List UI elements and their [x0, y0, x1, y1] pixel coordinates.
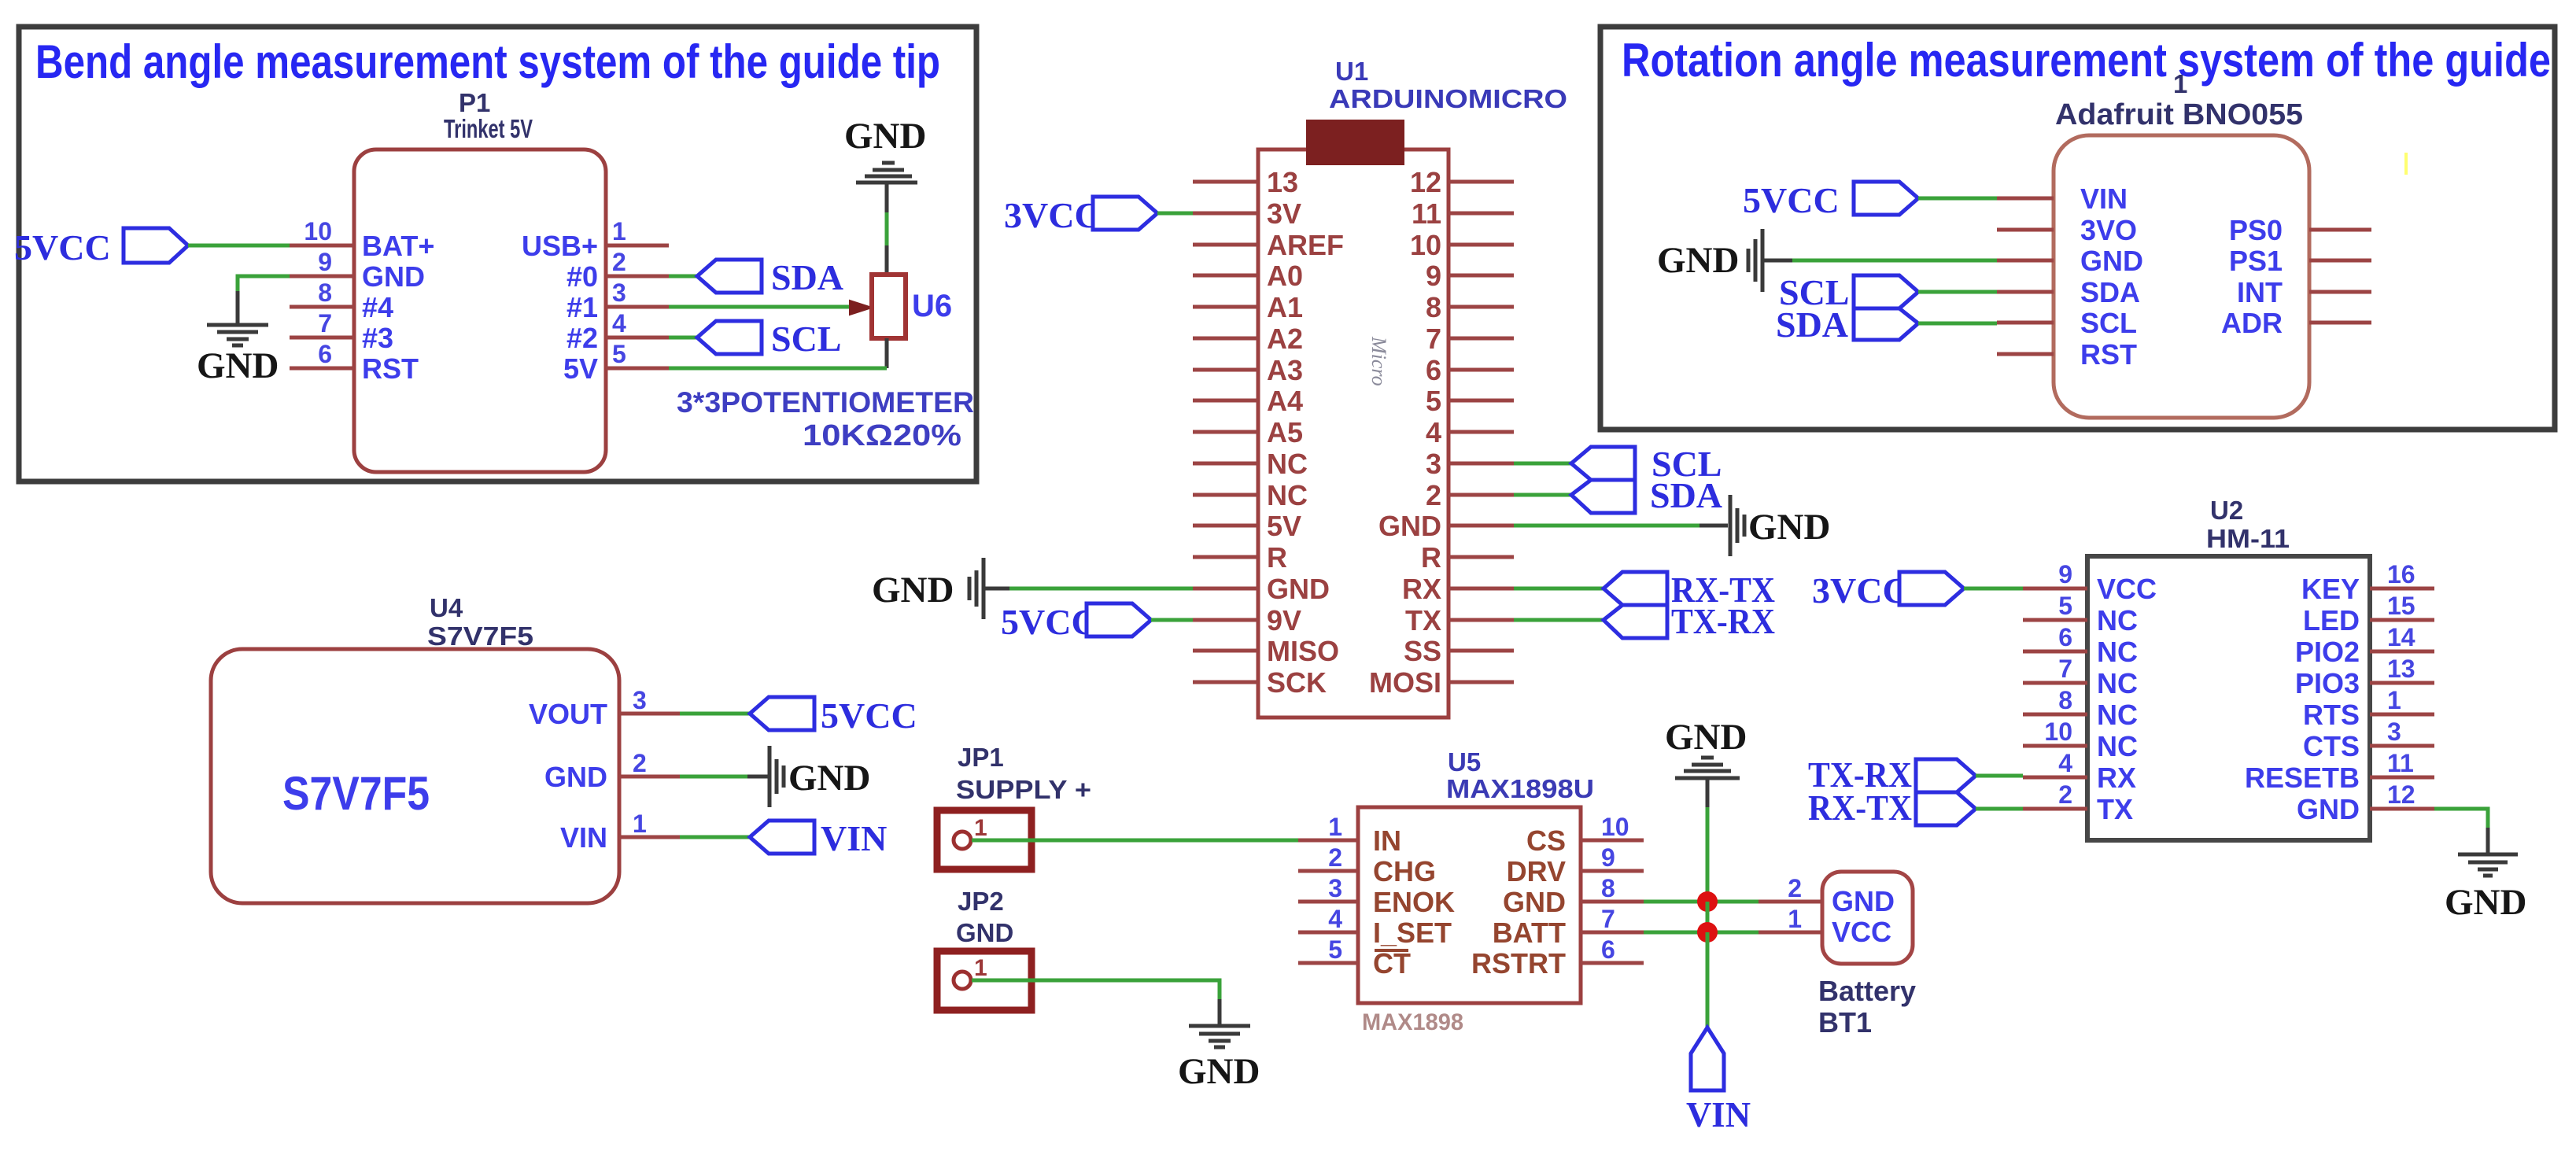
svg-text:14: 14 [2387, 623, 2415, 651]
svg-text:GND: GND [2445, 882, 2526, 923]
wire U4 GND to ground [680, 775, 749, 779]
svg-text:A3: A3 [1267, 354, 1303, 386]
pin 9 GND stub [290, 248, 354, 276]
svg-text:GND: GND [2080, 245, 2143, 277]
regulator U4 S7V7F5 [211, 593, 619, 903]
svg-text:NC: NC [2097, 636, 2138, 668]
wire P1 pin 2 to SDA flag [669, 275, 697, 279]
svg-text:CTS: CTS [2303, 730, 2360, 762]
wire P1 pin 5 to U6 bottom [669, 367, 887, 371]
svg-text:9: 9 [1426, 260, 1441, 292]
svg-text:16: 16 [2387, 560, 2415, 588]
svg-text:KEY: KEY [2301, 573, 2360, 605]
svg-text:BATT: BATT [1493, 917, 1566, 949]
pin 7 #3 stub [290, 309, 354, 338]
net flag SCL (BNO055) [1779, 272, 1918, 312]
svg-text:3VCC: 3VCC [1004, 195, 1101, 235]
wire ground to U6 top [885, 212, 889, 247]
svg-text:2: 2 [633, 749, 647, 777]
svg-text:2: 2 [1328, 843, 1342, 872]
pin 2 #0 stub [606, 248, 669, 276]
svg-text:PS0: PS0 [2229, 214, 2283, 246]
svg-text:MAX1898: MAX1898 [1362, 1009, 1463, 1035]
battery pin 2 stub [1759, 874, 1822, 902]
svg-text:PS1: PS1 [2229, 245, 2283, 277]
svg-text:MOSI: MOSI [1369, 666, 1441, 699]
wire 5VCC to U1 9V [1151, 618, 1193, 622]
supply flag 3VCC (U1 3V pin) [1004, 195, 1157, 235]
wire P1 pin 4 to SCL flag [669, 336, 697, 340]
ground GND (above battery net) [1665, 717, 1747, 809]
svg-text:SDA: SDA [2080, 276, 2140, 308]
svg-text:12: 12 [2387, 780, 2415, 809]
svg-text:11: 11 [1412, 197, 1441, 230]
svg-text:SCL: SCL [771, 319, 841, 359]
wire ground to BNO055 GND [1792, 259, 1997, 263]
svg-text:VOUT: VOUT [529, 698, 607, 730]
svg-text:9: 9 [2058, 560, 2072, 588]
connector JP1 SUPPLY + [937, 743, 1091, 869]
svg-text:U1: U1 [1335, 57, 1368, 86]
ground GND (right of U4) [747, 746, 870, 807]
U2 pin 4 stub [2023, 749, 2087, 777]
wire P1 pin 3 to potentiometer wiper [669, 305, 851, 309]
U5 pin 5 stub [1298, 935, 1358, 964]
wire U5 GND to battery GND [1644, 900, 1759, 904]
svg-text:A4: A4 [1267, 385, 1303, 417]
U2 pin 5 stub [2023, 592, 2087, 620]
U5 pin 3 stub [1298, 874, 1358, 902]
wire U1 TX to TX-RX flag [1514, 618, 1604, 622]
stray yellow mark [2404, 153, 2408, 175]
svg-text:MAX1898U: MAX1898U [1446, 774, 1594, 803]
svg-text:6: 6 [1601, 935, 1615, 964]
svg-text:5VCC: 5VCC [821, 695, 917, 736]
pin 6 RST stub [290, 340, 354, 368]
U4 pin 1 VIN stub [619, 810, 680, 838]
svg-text:7: 7 [1601, 905, 1615, 933]
U2 pin 2 stub [2023, 780, 2087, 809]
svg-text:GND: GND [1503, 886, 1566, 918]
wire 3VCC to U1 3V [1157, 212, 1193, 216]
svg-text:VIN: VIN [821, 818, 887, 858]
svg-text:#2: #2 [566, 322, 598, 354]
wire JP2 to ground [972, 980, 1220, 1001]
svg-text:1: 1 [2173, 69, 2187, 98]
svg-text:5: 5 [1328, 935, 1342, 964]
svg-text:RST: RST [2080, 338, 2137, 371]
BNO055 left pin stubs [1997, 198, 2054, 354]
ground GND (above U6) [844, 116, 926, 214]
net flag RX-TX (U1) [1604, 570, 1775, 610]
svg-text:4: 4 [2058, 749, 2072, 777]
U5 pin 9 stub [1581, 843, 1644, 872]
svg-text:RX-TX: RX-TX [1808, 788, 1912, 828]
net flag TX-RX (U1) [1604, 601, 1775, 641]
pin 5 5V stub [606, 340, 669, 368]
svg-text:U6: U6 [912, 289, 952, 323]
svg-text:13: 13 [1267, 166, 1298, 198]
U2 pin 14 stub [2370, 623, 2434, 651]
svg-text:Adafruit BNO055: Adafruit BNO055 [2055, 98, 2303, 131]
net flag RX-TX (U2) [1808, 788, 1976, 828]
wire U4 VOUT to 5VCC flag [680, 712, 750, 716]
connector JP2 GND [937, 887, 1032, 1010]
wire BATT junction down to VIN flag [1706, 932, 1710, 1027]
svg-text:9: 9 [1601, 843, 1615, 872]
svg-text:2: 2 [612, 248, 626, 276]
U1 left pin stubs [1193, 182, 1258, 682]
svg-text:A1: A1 [1267, 291, 1303, 323]
wire ground down to GND junction [1706, 807, 1710, 902]
svg-text:1: 1 [633, 810, 647, 838]
svg-text:TX: TX [2097, 793, 2133, 825]
U5 pin 7 stub [1581, 905, 1644, 933]
svg-text:USB+: USB+ [522, 230, 598, 262]
svg-text:1: 1 [612, 217, 626, 245]
svg-text:AREF: AREF [1267, 229, 1344, 261]
wire U1 RX to RX-TX flag [1514, 587, 1604, 591]
bluetooth module U2 HM-11 [2087, 496, 2370, 840]
svg-text:4: 4 [612, 309, 626, 338]
svg-text:3VCC: 3VCC [1812, 570, 1909, 611]
svg-text:U2: U2 [2210, 496, 2243, 525]
svg-text:1: 1 [1788, 905, 1802, 933]
wire U1 GND pin to ground [1514, 524, 1701, 528]
svg-text:MISO: MISO [1267, 635, 1339, 667]
wire junction down to BATT junction [1706, 902, 1710, 932]
U4 pin 3 VOUT stub [619, 686, 680, 714]
svg-text:Trinket 5V: Trinket 5V [444, 114, 533, 143]
svg-text:SUPPLY +: SUPPLY + [956, 775, 1091, 804]
svg-text:#0: #0 [566, 260, 598, 293]
supply flag 5VCC (U1 9V pin) [1001, 602, 1151, 642]
ground GND (below JP2 wire) [1178, 999, 1260, 1092]
pin 3 #1 stub [606, 279, 669, 307]
U2 pin 8 stub [2023, 686, 2087, 714]
U2 pin 1 stub [2370, 686, 2434, 714]
ground GND (below U2) [2445, 828, 2526, 923]
svg-text:SCK: SCK [1267, 666, 1327, 699]
svg-text:VCC: VCC [1832, 916, 1891, 948]
wire U4 VIN to VIN flag [680, 836, 750, 839]
wire TX-RX flag to U2 RX [1976, 774, 2023, 778]
wire P1 pin 9 to ground [238, 276, 290, 293]
net flag VIN (U4) [750, 818, 887, 858]
U5 pin 8 stub [1581, 874, 1644, 902]
svg-text:4: 4 [1426, 416, 1441, 448]
wire 3VCC to U2 VCC [1964, 587, 2023, 591]
svg-text:GND: GND [1832, 885, 1895, 917]
U5 pin 10 stub [1581, 813, 1644, 841]
svg-text:LED: LED [2303, 604, 2360, 636]
svg-text:CT: CT [1373, 947, 1411, 979]
svg-text:3: 3 [1328, 874, 1342, 902]
svg-text:A0: A0 [1267, 260, 1303, 292]
supply flag 5VCC (P1) [14, 227, 188, 267]
U2 pin 9 stub [2023, 560, 2087, 588]
ground GND (below P1 pin 9) [197, 291, 279, 386]
connector P1 Trinket 5V [354, 88, 606, 472]
svg-text:NC: NC [2097, 667, 2138, 699]
pin 10 BAT+ stub [290, 217, 354, 245]
svg-text:7: 7 [318, 309, 332, 338]
wire U5 BATT to battery VCC [1644, 931, 1759, 935]
svg-text:5VCC: 5VCC [1743, 180, 1840, 220]
svg-text:10: 10 [2044, 718, 2072, 746]
wire RX-TX flag to U2 TX [1976, 807, 2023, 811]
svg-text:3: 3 [612, 279, 626, 307]
svg-text:NC: NC [1267, 479, 1308, 511]
svg-text:GND: GND [1748, 507, 1830, 548]
svg-text:SDA: SDA [1776, 304, 1848, 345]
battery pin 1 stub [1759, 905, 1822, 933]
supply flag 5VCC (U4) [750, 695, 917, 736]
U6 bottom pin stub [885, 338, 889, 368]
svg-text:6: 6 [1426, 354, 1441, 386]
svg-text:5: 5 [2058, 592, 2072, 620]
svg-text:4: 4 [1328, 905, 1342, 933]
wire ground to U1 GND [1009, 587, 1193, 591]
svg-text:IN: IN [1373, 825, 1401, 857]
svg-text:GND: GND [2297, 793, 2360, 825]
svg-text:#4: #4 [362, 291, 393, 323]
ground GND (left of U1 GND pin) [872, 558, 1011, 619]
wire U1 pin 2 to SDA flag [1514, 493, 1571, 497]
svg-text:5: 5 [1426, 385, 1441, 417]
svg-text:ADR: ADR [2221, 307, 2283, 339]
svg-text:GND: GND [872, 570, 954, 611]
svg-text:5V: 5V [563, 352, 598, 385]
net flag TX-RX (U2) [1808, 754, 1976, 795]
net flag SDA (BNO055) [1776, 304, 1918, 345]
svg-text:ARDUINOMICRO: ARDUINOMICRO [1329, 84, 1567, 113]
svg-text:R: R [1267, 541, 1287, 574]
svg-text:I_SET: I_SET [1373, 917, 1452, 949]
net flag SCL [697, 319, 841, 359]
svg-text:BT1: BT1 [1818, 1006, 1872, 1038]
U4 pin 2 GND stub [619, 749, 680, 777]
U2 pin 13 stub [2370, 655, 2434, 683]
net flag SDA (U1) [1571, 475, 1722, 515]
svg-text:U4: U4 [430, 593, 463, 622]
svg-text:#3: #3 [362, 322, 393, 354]
svg-text:2: 2 [1788, 874, 1802, 902]
svg-text:Micro: Micro [1367, 336, 1390, 386]
svg-text:GND: GND [788, 758, 870, 799]
svg-text:1: 1 [974, 815, 987, 841]
svg-text:PIO3: PIO3 [2295, 667, 2360, 699]
svg-text:PIO2: PIO2 [2295, 636, 2360, 668]
svg-text:15: 15 [2387, 592, 2415, 620]
svg-text:1: 1 [1328, 813, 1342, 841]
svg-text:6: 6 [2058, 623, 2072, 651]
svg-text:1: 1 [974, 955, 987, 981]
svg-text:NC: NC [2097, 730, 2138, 762]
svg-text:3V: 3V [1267, 197, 1301, 230]
svg-text:10: 10 [1601, 813, 1629, 841]
svg-text:RX: RX [1402, 573, 1441, 605]
svg-text:GND: GND [1178, 1051, 1260, 1092]
svg-text:10: 10 [1410, 229, 1441, 261]
svg-text:A5: A5 [1267, 416, 1303, 448]
svg-text:GND: GND [1665, 717, 1747, 758]
wire U2 GND to ground [2434, 809, 2488, 829]
svg-text:VIN: VIN [2080, 183, 2128, 215]
svg-text:A2: A2 [1267, 323, 1303, 355]
pin 8 #4 stub [290, 279, 354, 307]
U5 pin 6 stub [1581, 935, 1644, 964]
U5 pin 4 stub [1298, 905, 1358, 933]
U2 pin 6 stub [2023, 623, 2087, 651]
svg-text:S7V7F5: S7V7F5 [282, 767, 430, 820]
net flag SCL (U1) [1571, 444, 1722, 484]
svg-text:5V: 5V [1267, 510, 1301, 542]
svg-text:3: 3 [1426, 448, 1441, 480]
IC U1 ARDUINOMICRO [1258, 57, 1567, 718]
potentiometer U6 [872, 275, 952, 338]
wire JP1 to U5 IN [972, 839, 1298, 843]
svg-text:10: 10 [304, 217, 332, 245]
svg-text:8: 8 [1601, 874, 1615, 902]
svg-text:3*3POTENTIOMETER: 3*3POTENTIOMETER [677, 386, 974, 419]
svg-text:SDA: SDA [771, 257, 843, 297]
svg-text:CS: CS [1526, 825, 1566, 857]
svg-text:3: 3 [633, 686, 647, 714]
svg-text:GND: GND [844, 116, 926, 157]
svg-text:9: 9 [318, 248, 332, 276]
net flag VIN (battery) [1686, 1027, 1751, 1134]
svg-text:3VO: 3VO [2080, 214, 2137, 246]
svg-text:DRV: DRV [1507, 855, 1566, 887]
svg-text:GND: GND [1267, 573, 1330, 605]
svg-text:TX: TX [1405, 604, 1441, 636]
svg-text:GND: GND [1378, 510, 1441, 542]
svg-text:INT: INT [2237, 276, 2283, 308]
svg-text:GND: GND [956, 918, 1013, 947]
svg-text:12: 12 [1410, 166, 1441, 198]
U5 pin 1 stub [1298, 813, 1358, 841]
svg-text:NC: NC [2097, 699, 2138, 731]
svg-text:Battery: Battery [1818, 975, 1916, 1007]
wiper arrow into U6 [850, 301, 872, 315]
wire 5VCC to BNO055 VIN [1918, 197, 1997, 201]
svg-text:SDA: SDA [1650, 475, 1722, 515]
ground GND (right of U1) [1699, 495, 1830, 556]
BNO055 right pin stubs [2309, 230, 2371, 323]
svg-text:7: 7 [2058, 655, 2072, 683]
svg-text:GND: GND [362, 260, 425, 293]
svg-text:2: 2 [1426, 479, 1441, 511]
svg-text:6: 6 [318, 340, 332, 368]
svg-text:Bend angle measurement system: Bend angle measurement system of the gui… [35, 35, 940, 88]
svg-text:HM-11: HM-11 [2206, 524, 2290, 553]
svg-text:U5: U5 [1448, 747, 1481, 777]
svg-text:3: 3 [2387, 718, 2401, 746]
svg-text:11: 11 [2387, 749, 2414, 777]
pin 1 USB+ stub [606, 217, 669, 245]
svg-text:9V: 9V [1267, 604, 1301, 636]
svg-text:RSTRT: RSTRT [1471, 947, 1566, 979]
U1 usb connector block [1306, 120, 1404, 165]
svg-text:13: 13 [2387, 655, 2415, 683]
svg-text:NC: NC [1267, 448, 1308, 480]
U2 pin 16 stub [2370, 560, 2434, 588]
svg-text:RESETB: RESETB [2245, 762, 2360, 794]
wire U1 pin 3 to SCL flag [1514, 462, 1571, 466]
svg-text:10KΩ20%: 10KΩ20% [803, 419, 961, 452]
supply flag 3VCC (U2) [1812, 570, 1964, 611]
svg-text:Rotation angle measurement sys: Rotation angle measurement system of the… [1622, 34, 2551, 87]
svg-text:NC: NC [2097, 604, 2138, 636]
svg-text:SCL: SCL [2080, 307, 2137, 339]
svg-text:JP1: JP1 [958, 743, 1004, 772]
wire SCL flag to BNO055 SDA [1918, 290, 1997, 294]
svg-text:RST: RST [362, 352, 419, 385]
svg-text:7: 7 [1426, 323, 1441, 355]
U1 right pin stubs [1449, 182, 1514, 682]
svg-text:8: 8 [1426, 291, 1441, 323]
svg-text:TX-RX: TX-RX [1671, 601, 1775, 641]
pin 4 #2 stub [606, 309, 669, 338]
svg-text:P1: P1 [459, 88, 490, 117]
svg-text:8: 8 [318, 279, 332, 307]
svg-text:RX: RX [2097, 762, 2136, 794]
svg-text:SS: SS [1404, 635, 1441, 667]
U2 pin 12 stub [2370, 780, 2434, 809]
ground GND (left of BNO055) [1657, 229, 1794, 292]
supply flag 5VCC (BNO055) [1743, 180, 1918, 220]
U2 pin 11 stub [2370, 749, 2434, 777]
svg-text:R: R [1421, 541, 1441, 574]
svg-text:8: 8 [2058, 686, 2072, 714]
svg-text:S7V7F5: S7V7F5 [427, 622, 533, 651]
svg-text:1: 1 [2387, 686, 2401, 714]
junction BATT net [1697, 922, 1718, 943]
wire SDA flag to BNO055 SCL [1918, 322, 1997, 326]
svg-text:2: 2 [2058, 780, 2072, 809]
U2 pin 15 stub [2370, 592, 2434, 620]
battery BT1 [1818, 872, 1916, 1038]
svg-text:JP2: JP2 [958, 887, 1004, 916]
svg-text:5VCC: 5VCC [1001, 602, 1098, 642]
svg-text:5: 5 [612, 340, 626, 368]
svg-text:VIN: VIN [1686, 1094, 1751, 1134]
svg-text:GND: GND [544, 761, 607, 793]
svg-text:VCC: VCC [2097, 573, 2157, 605]
wire net 5VCC to P1 pin 10 [188, 244, 290, 248]
svg-text:5VCC: 5VCC [14, 227, 111, 267]
U2 pin 10 stub [2023, 718, 2087, 746]
U2 pin 7 stub [2023, 655, 2087, 683]
charger U5 MAX1898U [1358, 747, 1594, 1035]
junction GND net [1697, 891, 1718, 912]
sensor module 1 Adafruit BNO055 [2054, 69, 2309, 418]
svg-text:RTS: RTS [2303, 699, 2360, 731]
U2 pin 3 stub [2370, 718, 2434, 746]
svg-text:BAT+: BAT+ [362, 230, 434, 262]
svg-text:CHG: CHG [1373, 855, 1436, 887]
U5 pin 2 stub [1298, 843, 1358, 872]
svg-text:#1: #1 [566, 291, 598, 323]
net flag SDA [697, 257, 843, 297]
svg-text:GND: GND [1657, 240, 1739, 281]
svg-text:VIN: VIN [560, 821, 607, 854]
svg-text:GND: GND [197, 345, 279, 386]
svg-text:ENOK: ENOK [1373, 886, 1455, 918]
frame: rotation angle measurement box [1600, 27, 2555, 430]
frame: bend angle measurement box [19, 27, 976, 481]
